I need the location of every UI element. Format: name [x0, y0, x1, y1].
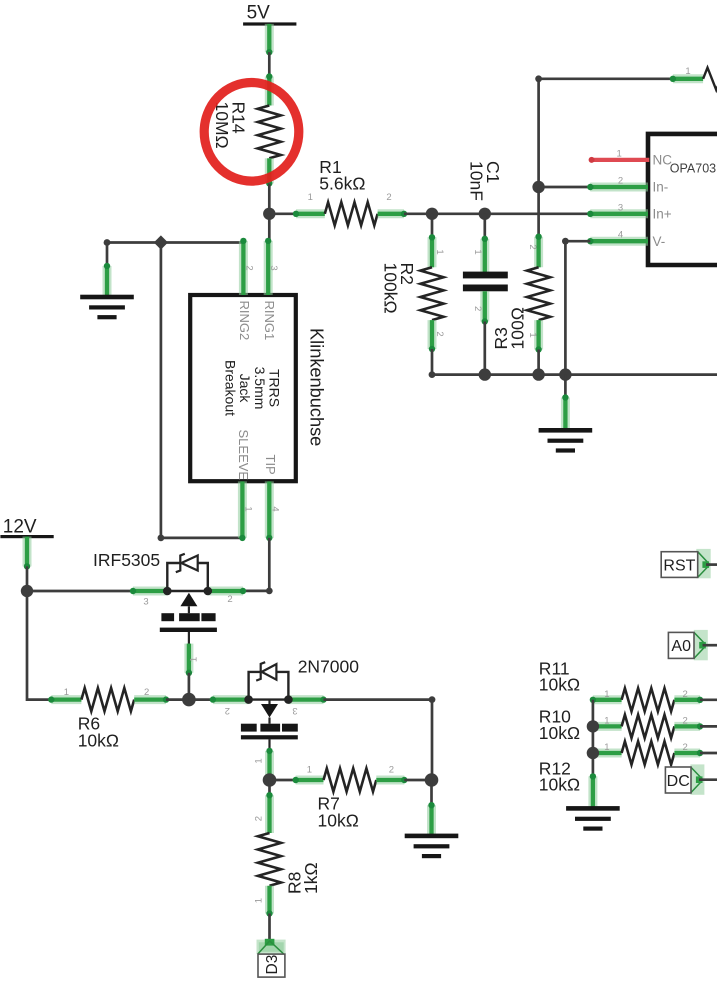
wire In-: [539, 186, 591, 189]
svg-text:12V: 12V: [3, 517, 37, 538]
svg-text:1: 1: [604, 715, 609, 726]
junction gate node: [182, 693, 196, 707]
svg-text:2N7000: 2N7000: [298, 657, 360, 677]
svg-text:10kΩ: 10kΩ: [539, 723, 580, 743]
ground G2: [564, 375, 567, 399]
wire node down to RING1: [268, 214, 271, 242]
svg-text:Klinkenbuchse: Klinkenbuchse: [306, 328, 326, 446]
wire RST to edge: [706, 563, 717, 566]
resistor top-right (partial) pin 1 lead: [673, 74, 703, 83]
wire Q1 drain down to R6 node: [188, 673, 191, 700]
svg-text:3: 3: [143, 597, 148, 608]
Q1 pin 2 lead: [208, 587, 243, 596]
op-amp U1 OPA703 box: [648, 132, 717, 268]
svg-text:1: 1: [617, 148, 622, 159]
svg-text:In-: In-: [653, 180, 669, 195]
svg-text:2: 2: [434, 331, 445, 336]
U1 pin 1 NC (unconnected, red): [592, 158, 650, 162]
wire down right of R7: [431, 700, 434, 780]
svg-text:1: 1: [307, 764, 312, 775]
junction R7 right node: [425, 773, 439, 787]
wire 5V to R14: [268, 52, 271, 78]
Q1 contact pads: [161, 613, 174, 621]
junction bus R10: [587, 720, 599, 732]
wire feedback top (node to top-right resistor): [539, 79, 673, 187]
resistor R1 5.6kΩ: [269, 212, 296, 215]
wire R10 to edge: [700, 725, 717, 728]
svg-text:2: 2: [682, 715, 687, 726]
svg-text:SLEEVE: SLEEVE: [236, 430, 251, 481]
svg-text:V-: V-: [653, 234, 666, 249]
wire 12V node to IRF5305 source: [27, 590, 133, 593]
J1 pin RING2: [239, 241, 248, 295]
wire R12 to edge: [700, 752, 717, 755]
wire DC to edge: [699, 778, 717, 781]
wire TIP down to IRF5305 drain: [243, 538, 269, 591]
J1 pin SLEEVE: [238, 481, 247, 538]
svg-text:1: 1: [254, 758, 265, 763]
svg-text:DC: DC: [667, 773, 690, 790]
wire R1 to R2 node: [404, 212, 432, 215]
U1 pin 3 In+: [590, 209, 648, 218]
svg-text:1: 1: [434, 249, 445, 254]
wire A0 to edge: [703, 644, 717, 647]
svg-text:1: 1: [254, 898, 265, 903]
junction R2 top: [426, 208, 438, 220]
svg-text:RING1: RING1: [262, 301, 277, 341]
junction C1 bottom: [479, 368, 491, 380]
svg-text:1: 1: [308, 192, 313, 203]
svg-text:2: 2: [243, 265, 254, 270]
svg-text:5V: 5V: [247, 2, 271, 23]
ground G3: [430, 780, 433, 806]
svg-text:2: 2: [618, 176, 623, 187]
svg-text:5.6kΩ: 5.6kΩ: [319, 174, 365, 194]
Q2 gate bar: [241, 735, 298, 739]
svg-text:1: 1: [685, 66, 690, 77]
svg-text:2: 2: [144, 687, 149, 698]
svg-text:2: 2: [227, 594, 232, 605]
wire gate node to 2N7000: [189, 698, 213, 701]
resistor R6 10kΩ: [51, 695, 81, 704]
resistor R7 10kΩ: [270, 779, 297, 782]
svg-text:4: 4: [269, 506, 280, 511]
svg-text:2: 2: [225, 705, 230, 716]
svg-text:2: 2: [682, 742, 687, 753]
junction 12V node: [21, 585, 33, 597]
Q2 symbol body: [249, 698, 289, 700]
Q1 gate bar: [160, 628, 217, 632]
svg-text:10kΩ: 10kΩ: [539, 775, 580, 795]
wire R6 to gate node: [166, 698, 189, 701]
svg-text:In+: In+: [653, 207, 672, 222]
ground G1: [106, 243, 109, 268]
Q1 pin 1 lead: [188, 632, 190, 645]
resistor R8 1kΩ: [268, 780, 271, 796]
wire 12V to junction: [26, 566, 29, 591]
svg-text:2: 2: [389, 764, 394, 775]
Q1 symbol body: [167, 590, 208, 592]
capacitor C1 10nF: [483, 214, 486, 240]
svg-text:1: 1: [472, 249, 483, 254]
Q2 body diode: [256, 662, 265, 680]
svg-text:D3: D3: [264, 955, 281, 975]
svg-text:2: 2: [386, 192, 391, 203]
wire horizontal to RING2 / grounds: [107, 241, 243, 244]
Q2 pin 3 lead: [288, 695, 323, 704]
svg-text:IRF5305: IRF5305: [93, 550, 160, 570]
Q1 channel arrow (P, up): [180, 593, 197, 607]
wire V- down to ground rail: [565, 241, 590, 374]
wire 12V node to R6: [27, 591, 51, 700]
junction In- / R3: [532, 181, 544, 193]
annotation red circle around R14: [204, 83, 299, 182]
wire bottom rail: [432, 373, 717, 376]
svg-text:1: 1: [242, 506, 253, 511]
svg-text:TIP: TIP: [263, 455, 278, 475]
resistor R14 10MΩ: [265, 77, 274, 106]
svg-text:3: 3: [268, 265, 279, 270]
junction left wire (diamond): [154, 235, 168, 249]
junction ground tap: [559, 368, 571, 380]
resistor R2 100kΩ: [431, 214, 434, 239]
Q2 pin 1 lead: [268, 739, 270, 752]
junction R3 bottom: [532, 368, 544, 380]
svg-text:2: 2: [527, 244, 538, 249]
wire R11 to edge: [700, 698, 717, 701]
svg-text:3: 3: [618, 202, 623, 213]
svg-text:2: 2: [682, 689, 687, 700]
svg-text:1: 1: [527, 332, 538, 337]
wire R8 to D3: [268, 914, 271, 942]
svg-text:2: 2: [254, 816, 265, 821]
wire long left vertical to SLEEVE: [161, 243, 243, 538]
junction C1 top: [479, 208, 491, 220]
Q2 contact pads: [241, 724, 257, 732]
svg-text:RING2: RING2: [237, 301, 252, 341]
net label DC connector: [690, 764, 704, 794]
Q2 channel arrow (N, down): [268, 700, 270, 704]
net label A0 connector: [694, 630, 708, 660]
wire node R2 to In+ lead: [432, 212, 590, 215]
U1 pin 4 V-: [590, 237, 648, 246]
J1 pin RING1: [264, 241, 273, 295]
svg-text:A0: A0: [671, 638, 691, 655]
net label D3 connector: [257, 940, 286, 955]
jack J1 TRRS breakout box: [190, 295, 296, 481]
wire R14 to node: [268, 183, 271, 213]
svg-text:1: 1: [604, 689, 609, 700]
svg-text:3: 3: [292, 705, 297, 716]
svg-text:2: 2: [472, 306, 483, 311]
svg-text:10kΩ: 10kΩ: [318, 810, 359, 830]
Q2 pin 2 lead: [213, 695, 249, 704]
J1 pin TIP: [265, 481, 274, 538]
node main (R14/R1/RING1): [263, 208, 275, 220]
Q1 pin 3 lead: [133, 587, 167, 596]
svg-text:10kΩ: 10kΩ: [78, 730, 119, 750]
net label RST connector: [696, 549, 710, 578]
svg-text:OPA703: OPA703: [670, 162, 716, 176]
svg-text:4: 4: [618, 230, 623, 241]
wire divider bus: [592, 700, 595, 777]
svg-text:RST: RST: [663, 557, 695, 574]
wire Q2 pin3 to right corner: [324, 698, 433, 701]
J1 internal text TRRS 3.5mm Jack Breakout: [223, 360, 283, 416]
ground G4: [588, 776, 597, 806]
Q1 body diode: [176, 554, 185, 572]
svg-text:NC: NC: [653, 153, 673, 168]
svg-text:1: 1: [64, 687, 69, 698]
svg-text:1: 1: [604, 742, 609, 753]
resistor R3 100Ω: [537, 187, 540, 238]
svg-text:1: 1: [189, 657, 200, 662]
junction bus R12: [587, 747, 599, 759]
svg-text:10kΩ: 10kΩ: [539, 675, 580, 695]
junction R7 left node: [263, 773, 277, 787]
